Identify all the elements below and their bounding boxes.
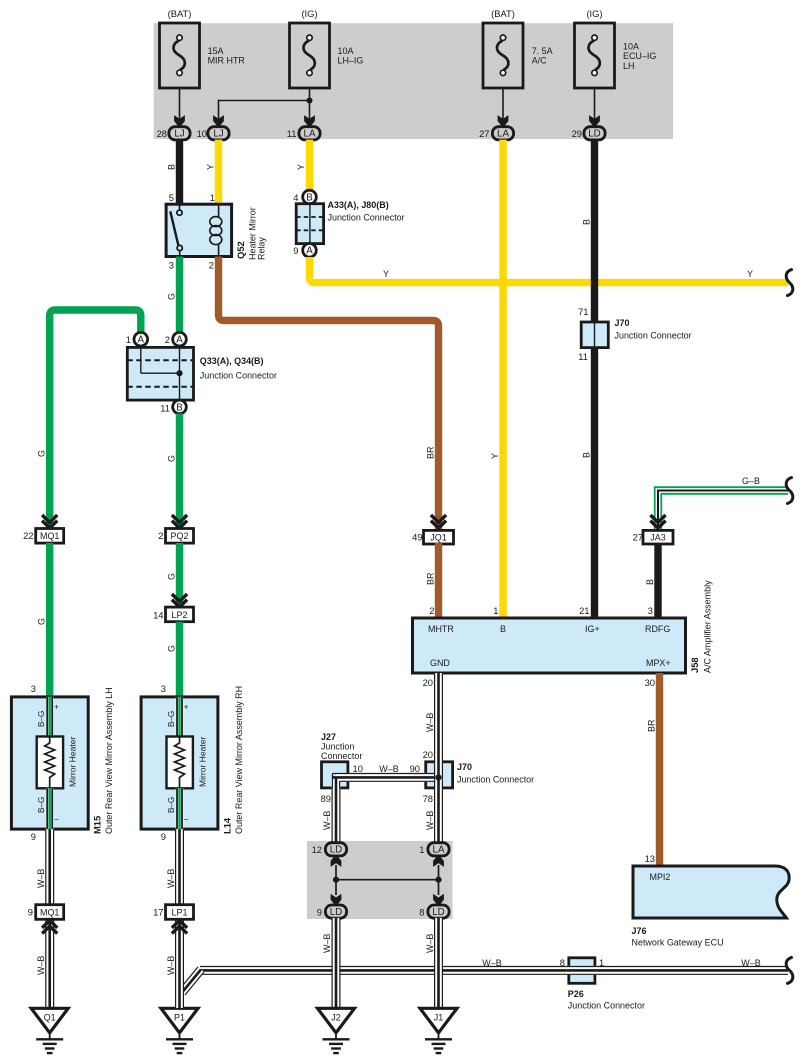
svg-text:20: 20 <box>423 750 433 760</box>
label W-B on bus middle <box>482 958 501 968</box>
svg-text:20: 20 <box>423 678 433 688</box>
svg-text:MPX+: MPX+ <box>646 658 671 668</box>
svg-text:2: 2 <box>209 261 214 271</box>
svg-text:A: A <box>176 335 183 346</box>
Q33 pin 1A circle <box>134 332 148 346</box>
wire W-B J70 pin 78 to connector 1 LA <box>435 788 443 844</box>
network gateway ECU J76 box <box>633 866 789 918</box>
svg-text:Connector: Connector <box>321 751 362 761</box>
svg-text:A: A <box>306 246 313 257</box>
svg-text:7. 5A: 7. 5A <box>532 46 553 56</box>
pin 2 label J58 MHTR <box>429 606 434 616</box>
connector 11 LA <box>299 127 320 140</box>
pin 13 label J76 <box>645 854 655 864</box>
wire W-B P1 vertical over diagonal <box>176 982 184 1008</box>
top power supply gray band <box>154 23 673 139</box>
splice node left <box>333 877 339 883</box>
svg-text:Outer Rear View Mirror Assembl: Outer Rear View Mirror Assembly LH <box>104 687 114 834</box>
wire branch junction to 10 LJ <box>219 100 310 121</box>
pin 21 label J58 IG+ <box>579 606 589 616</box>
svg-text:2: 2 <box>165 335 170 345</box>
wire B from 28 LJ to relay pin 5 <box>176 140 183 205</box>
svg-text:LJ: LJ <box>174 129 184 140</box>
svg-text:A/C: A/C <box>532 56 547 66</box>
wire G LP2 to L14 pin 3 <box>176 622 183 698</box>
pin 8 label LD <box>419 908 424 918</box>
fuse F4 value label 10A ECU-IG LH <box>623 41 656 71</box>
relay pin 5 label <box>169 193 174 203</box>
pin 2 label PQ2 <box>158 531 163 541</box>
svg-text:W–B: W–B <box>166 956 176 975</box>
wire G PQ2 to LP2 <box>176 543 183 608</box>
pin 12 label <box>312 845 322 855</box>
pin 11 label <box>287 129 297 139</box>
svg-text:13: 13 <box>645 854 655 864</box>
svg-text:BR: BR <box>646 719 656 732</box>
svg-text:17: 17 <box>153 908 163 918</box>
label B-G lower M15 <box>37 797 46 813</box>
fuse F2 value label 10A LH-IG <box>338 46 364 66</box>
outer rear view mirror assembly LH M15 box <box>11 697 88 829</box>
relay Q52 box <box>166 204 232 256</box>
svg-text:LD: LD <box>432 907 444 918</box>
fuse F3 value label 7.5A A/C <box>532 46 553 66</box>
label W-B on M15 ground wire <box>36 869 46 888</box>
svg-text:Y: Y <box>490 453 500 459</box>
svg-text:2: 2 <box>429 606 434 616</box>
arrow into JQ1 <box>431 515 446 528</box>
pin 22 label MQ1 <box>23 531 33 541</box>
wire W-B J58 GND to J70 lower <box>435 673 443 763</box>
L14 pin 3 label <box>161 684 166 694</box>
svg-text:BR: BR <box>425 446 435 459</box>
label G on left wire lower <box>37 618 47 625</box>
connector JQ1 <box>424 530 454 544</box>
pin 90 label J70 lower <box>410 764 420 774</box>
svg-text:3: 3 <box>169 261 174 271</box>
wire G relay pin 3 to Q33 pin 2A <box>176 257 183 333</box>
connector 10 LJ <box>208 127 229 140</box>
connector MQ1 lower pin 9 <box>28 905 64 920</box>
pin 1 label LA <box>419 845 424 855</box>
break symbol G-B wire right edge <box>786 478 793 504</box>
svg-text:Y: Y <box>383 269 389 279</box>
label BR on brown wire <box>425 446 435 459</box>
pin 8 label P26 <box>560 958 565 968</box>
svg-text:PQ2: PQ2 <box>171 531 189 541</box>
connector 12 LD <box>325 843 346 856</box>
svg-text:M15: M15 <box>93 816 103 834</box>
svg-text:Q1: Q1 <box>44 1012 56 1022</box>
A/C amplifier J58 box <box>413 618 686 673</box>
pin 71 label J70 <box>578 307 588 317</box>
junction connector A33/J80 box <box>296 204 323 244</box>
pin 27 label JA3 <box>633 533 643 543</box>
wire G Q33 pin 11B to PQ2 <box>176 414 183 530</box>
pin 78 label J70 lower bottom <box>423 794 433 804</box>
connector 27 LA <box>492 127 513 140</box>
wire Y from A33 pin 9 to right edge <box>310 257 789 283</box>
M15 mirror heater name <box>68 737 78 787</box>
L14 name label <box>223 686 245 834</box>
L14 minus sign <box>184 815 189 824</box>
label B-G lower L14 <box>167 797 176 813</box>
svg-text:(IG): (IG) <box>301 9 317 19</box>
fuse block label (IG) <box>301 9 317 19</box>
svg-text:9: 9 <box>161 832 166 842</box>
svg-text:14: 14 <box>153 611 163 621</box>
wire B-G inside M15 upper <box>47 697 52 737</box>
relay Q52 name label <box>236 207 267 260</box>
svg-text:30: 30 <box>645 678 655 688</box>
junction connector J70 lower box <box>426 762 453 788</box>
splice node right <box>435 877 441 883</box>
svg-text:29: 29 <box>572 129 582 139</box>
arrow up below 12 LD <box>331 855 342 867</box>
label G on wire <box>166 293 176 300</box>
svg-text:8: 8 <box>560 958 565 968</box>
wire W-B L14 pin 9 to ground P1 <box>176 829 184 1008</box>
svg-text:21: 21 <box>579 606 589 616</box>
connector 29 LD <box>584 127 605 140</box>
wire W-B J27 pin 89 to connector 12 LD <box>332 788 340 844</box>
svg-text:27: 27 <box>479 129 489 139</box>
L14 pin 9 label <box>161 832 166 842</box>
wire W-B M15 pin 9 to ground Q1 <box>46 829 54 1008</box>
svg-text:G: G <box>166 455 176 462</box>
label B-G upper M15 <box>37 711 46 727</box>
Q33 pin 11B circle <box>173 400 187 414</box>
ground Q1 <box>31 1008 68 1053</box>
connector MQ1 <box>36 529 64 544</box>
pin 14 label LP2 <box>153 611 163 621</box>
svg-text:J2: J2 <box>331 1012 340 1022</box>
wire W-B 9 LD to ground J2 <box>332 918 340 1008</box>
svg-text:Q52: Q52 <box>236 241 246 259</box>
splice crossbar <box>336 879 439 881</box>
svg-text:71: 71 <box>578 307 588 317</box>
junction connector A33/J80 pin 4 B circle <box>293 190 316 204</box>
label W-B on L14 ground wire <box>166 869 176 888</box>
pin 11 label J70 <box>578 352 588 362</box>
label W-B on J70 drop wire <box>425 811 435 830</box>
svg-text:+: + <box>54 703 59 712</box>
label W-B above bus J2 <box>322 934 332 953</box>
svg-text:W–B: W–B <box>36 869 46 888</box>
wire W-B diagonal branch to P1 <box>179 967 204 995</box>
svg-text:22: 22 <box>23 531 33 541</box>
L14 plus sign <box>184 703 189 712</box>
svg-text:Junction Connector: Junction Connector <box>568 1001 645 1011</box>
svg-text:A/C Amplifier Assembly: A/C Amplifier Assembly <box>703 580 713 673</box>
svg-text:W–B: W–B <box>36 956 46 975</box>
svg-text:P26: P26 <box>568 989 584 999</box>
connector 8 LD <box>428 905 449 918</box>
pin 3 label J58 RDFG <box>648 606 653 616</box>
svg-text:LD: LD <box>588 129 600 140</box>
svg-text:GND: GND <box>430 658 450 668</box>
label G on wire below Q33 <box>166 455 176 462</box>
wire G from Q33 pin 1A left branch <box>50 310 141 530</box>
J76 terminal MPI2 <box>650 872 671 882</box>
svg-text:LP1: LP1 <box>172 907 188 917</box>
svg-text:B: B <box>581 452 591 458</box>
wire B-G inside L14 lower <box>177 788 182 829</box>
pin 27 label <box>479 129 489 139</box>
svg-text:A33(A), J80(B): A33(A), J80(B) <box>328 200 389 210</box>
svg-text:G: G <box>166 645 176 652</box>
M15 heater resistor <box>45 737 55 789</box>
svg-text:G–B: G–B <box>742 476 760 486</box>
svg-text:W–B: W–B <box>741 958 760 968</box>
junction connector J70 box <box>581 322 608 348</box>
pin 28 label <box>157 129 167 139</box>
svg-text:3: 3 <box>161 684 166 694</box>
splice wire right <box>438 865 440 895</box>
svg-text:W–B: W–B <box>425 934 435 953</box>
wire G-B from right edge to JA3 <box>655 487 788 530</box>
J58 terminal GND <box>430 658 450 668</box>
svg-text:J70: J70 <box>457 762 472 772</box>
svg-text:Y: Y <box>747 269 753 279</box>
svg-text:−: − <box>54 815 59 824</box>
svg-text:J58: J58 <box>690 657 700 673</box>
svg-text:W–B: W–B <box>379 764 398 774</box>
svg-text:Junction Connector: Junction Connector <box>457 775 534 785</box>
svg-text:Junction Connector: Junction Connector <box>328 213 405 223</box>
pin 30 label J58 MPX+ <box>645 678 655 688</box>
pin 20 label J70 lower top <box>423 750 433 760</box>
connector PQ2 <box>166 529 194 544</box>
svg-text:B: B <box>176 402 183 413</box>
svg-text:LA: LA <box>497 129 509 140</box>
connector 9 LD <box>325 905 346 918</box>
svg-text:(BAT): (BAT) <box>491 9 515 19</box>
pin 10 label J27 <box>353 764 363 774</box>
arrow into 11 LA <box>304 115 315 127</box>
pin 1 label P26 <box>599 958 604 968</box>
label W-B on J27 drop wire <box>322 811 332 830</box>
svg-text:MQ1: MQ1 <box>40 531 59 541</box>
Q33 pin 2 label <box>165 335 170 345</box>
svg-text:W–B: W–B <box>322 934 332 953</box>
svg-text:−: − <box>184 815 189 824</box>
svg-text:10: 10 <box>197 129 207 139</box>
ground J1 <box>420 1008 457 1053</box>
svg-text:W–B: W–B <box>322 811 332 830</box>
svg-text:MQ1: MQ1 <box>40 907 59 917</box>
svg-text:LA: LA <box>433 845 445 856</box>
svg-text:1: 1 <box>599 958 604 968</box>
J58 terminal MHTR <box>428 624 454 634</box>
svg-text:1: 1 <box>210 193 215 203</box>
connector JA3 <box>643 530 673 544</box>
svg-text:J27: J27 <box>321 732 336 742</box>
svg-text:LH: LH <box>623 61 634 71</box>
wire B-G inside M15 lower <box>47 788 52 829</box>
svg-text:2: 2 <box>158 531 163 541</box>
svg-text:5: 5 <box>169 193 174 203</box>
fuse F2 10A LH-IG <box>290 23 330 88</box>
middle gray panel <box>307 841 453 919</box>
svg-text:(BAT): (BAT) <box>168 9 192 19</box>
J58 terminal RDFG <box>645 624 670 634</box>
svg-text:Q33(A), Q34(B): Q33(A), Q34(B) <box>200 356 264 366</box>
svg-text:W–B: W–B <box>425 713 435 732</box>
label Y on horizontal yellow left <box>383 269 389 279</box>
arrow up below 1 LA <box>433 855 444 867</box>
wire W-B bottom bus <box>200 967 788 975</box>
svg-text:ECU–IG: ECU–IG <box>623 51 656 61</box>
relay Q52 switch contact <box>170 204 182 256</box>
J58 terminal B <box>500 624 506 634</box>
pin 89 label J27 <box>321 794 331 804</box>
M15 pin 3 label <box>31 684 36 694</box>
svg-text:G: G <box>166 573 176 580</box>
junction connector A33 name <box>328 200 405 223</box>
svg-text:3: 3 <box>648 606 653 616</box>
arrow down above 9 LD <box>331 894 342 906</box>
arrow into 27 LA <box>498 115 509 127</box>
wire W-B 8 LD to ground J1 <box>435 918 443 1008</box>
J27 name label <box>321 732 362 761</box>
svg-text:B: B <box>645 579 655 585</box>
svg-text:9: 9 <box>28 908 33 918</box>
arrow into PQ2 <box>172 515 187 528</box>
label B on black wire lower <box>581 452 591 458</box>
svg-text:10A: 10A <box>623 41 639 51</box>
svg-text:Junction Connector: Junction Connector <box>200 371 277 381</box>
label Y on horizontal yellow right <box>747 269 753 279</box>
wire B 29 LD to J58 pin 21 <box>591 140 598 618</box>
connector LP1 pin 17 <box>153 905 193 920</box>
junction connector A33 pin 9 A circle <box>293 244 316 258</box>
svg-text:9: 9 <box>317 908 322 918</box>
svg-text:LA: LA <box>304 129 316 140</box>
L14 mirror heater box <box>167 737 193 789</box>
svg-text:B–G: B–G <box>37 711 46 727</box>
relay pin 2 label <box>209 261 214 271</box>
svg-text:11: 11 <box>287 129 297 139</box>
svg-text:W–B: W–B <box>482 958 501 968</box>
J70 lower name label <box>457 762 534 785</box>
P26 name label <box>568 989 645 1011</box>
svg-text:J70: J70 <box>615 318 630 328</box>
pin 1 label J58 B <box>493 606 498 616</box>
svg-text:B: B <box>306 192 313 203</box>
connector 1 LA <box>428 843 449 856</box>
svg-text:LD: LD <box>330 845 342 856</box>
junction node on F2 output <box>307 98 313 104</box>
svg-text:BR: BR <box>425 572 435 585</box>
svg-text:P1: P1 <box>174 1012 185 1022</box>
break symbol bottom bus right edge <box>786 957 793 983</box>
junction connector P26 box <box>567 958 597 984</box>
svg-text:W–B: W–B <box>166 869 176 888</box>
label G on wire LP2-L14 <box>166 645 176 652</box>
pin 49 label JQ1 <box>412 533 422 543</box>
svg-text:(IG): (IG) <box>586 9 602 19</box>
label W-B on GND wire <box>425 713 435 732</box>
svg-text:Junction Connector: Junction Connector <box>615 331 692 341</box>
J58 terminal MPX+ <box>646 658 671 668</box>
M15 plus sign <box>54 703 59 712</box>
svg-text:IG+: IG+ <box>585 624 600 634</box>
wire fuse F4 to connector 29 LD <box>594 88 596 121</box>
M15 mirror heater box <box>37 737 63 789</box>
svg-text:9: 9 <box>31 832 36 842</box>
arrow into JA3 <box>650 515 665 528</box>
label Y on wire A33 <box>296 164 306 170</box>
wire Y from 11 LA to junction A33 pin 4 <box>306 140 313 191</box>
label Y on wire <box>205 164 215 170</box>
svg-text:JA3: JA3 <box>650 533 665 543</box>
svg-text:B: B <box>167 164 177 170</box>
svg-text:Y: Y <box>296 164 306 170</box>
label G on left branch upper <box>37 450 47 457</box>
svg-text:J1: J1 <box>434 1012 443 1022</box>
svg-text:89: 89 <box>321 794 331 804</box>
label B on JA3 wire <box>645 579 655 585</box>
svg-text:10: 10 <box>353 764 363 774</box>
arrow into 29 LD <box>589 115 600 127</box>
svg-text:4: 4 <box>293 193 298 203</box>
svg-text:B–G: B–G <box>167 797 176 813</box>
svg-text:9: 9 <box>293 246 298 256</box>
svg-text:1: 1 <box>126 335 131 345</box>
svg-text:J76: J76 <box>632 926 647 936</box>
svg-text:8: 8 <box>419 908 424 918</box>
wire Y from 10 LJ to relay pin 1 <box>215 140 222 205</box>
wire BR relay pin 2 to JQ1 <box>219 257 439 532</box>
svg-text:Y: Y <box>205 164 215 170</box>
M15 name label <box>93 687 115 834</box>
svg-text:Outer Rear View Mirror Assembl: Outer Rear View Mirror Assembly RH <box>234 686 244 834</box>
label G on wire PQ2-LP2 <box>166 573 176 580</box>
svg-text:B–G: B–G <box>167 711 176 727</box>
J58 terminal IG+ <box>585 624 600 634</box>
svg-text:27: 27 <box>633 533 643 543</box>
svg-text:+: + <box>184 703 189 712</box>
splice wire left <box>335 865 337 895</box>
label Y on long yellow wire <box>490 453 500 459</box>
svg-text:G: G <box>37 618 47 625</box>
svg-text:Mirror Heater: Mirror Heater <box>68 737 78 787</box>
svg-text:G: G <box>37 450 47 457</box>
label W-B between J27 and J70 <box>379 764 398 774</box>
label W-B on bus right <box>741 958 760 968</box>
svg-text:JQ1: JQ1 <box>430 533 446 543</box>
arrow into LP2 <box>172 594 187 607</box>
J76 name label <box>632 926 724 948</box>
J70 name label <box>615 318 692 341</box>
ground J2 <box>318 1008 355 1053</box>
arrow into MQ1 <box>42 515 57 528</box>
svg-text:11: 11 <box>160 404 170 414</box>
wire Y from 27 LA to J58 pin 1 B <box>499 140 506 618</box>
svg-text:1: 1 <box>419 845 424 855</box>
fuse F1 15A MIR HTR <box>160 23 200 88</box>
wire fuse F3 to connector 27 LA <box>502 88 504 121</box>
fuse F4 10A ECU-IG LH <box>575 23 615 88</box>
label B-G upper L14 <box>167 711 176 727</box>
J58 name label <box>690 580 713 673</box>
label W-B above bus J1 <box>425 934 435 953</box>
L14 mirror heater name <box>198 737 208 787</box>
fuse block label (BAT) right <box>491 9 515 19</box>
svg-text:LH–IG: LH–IG <box>338 56 364 66</box>
svg-text:B: B <box>581 219 591 225</box>
